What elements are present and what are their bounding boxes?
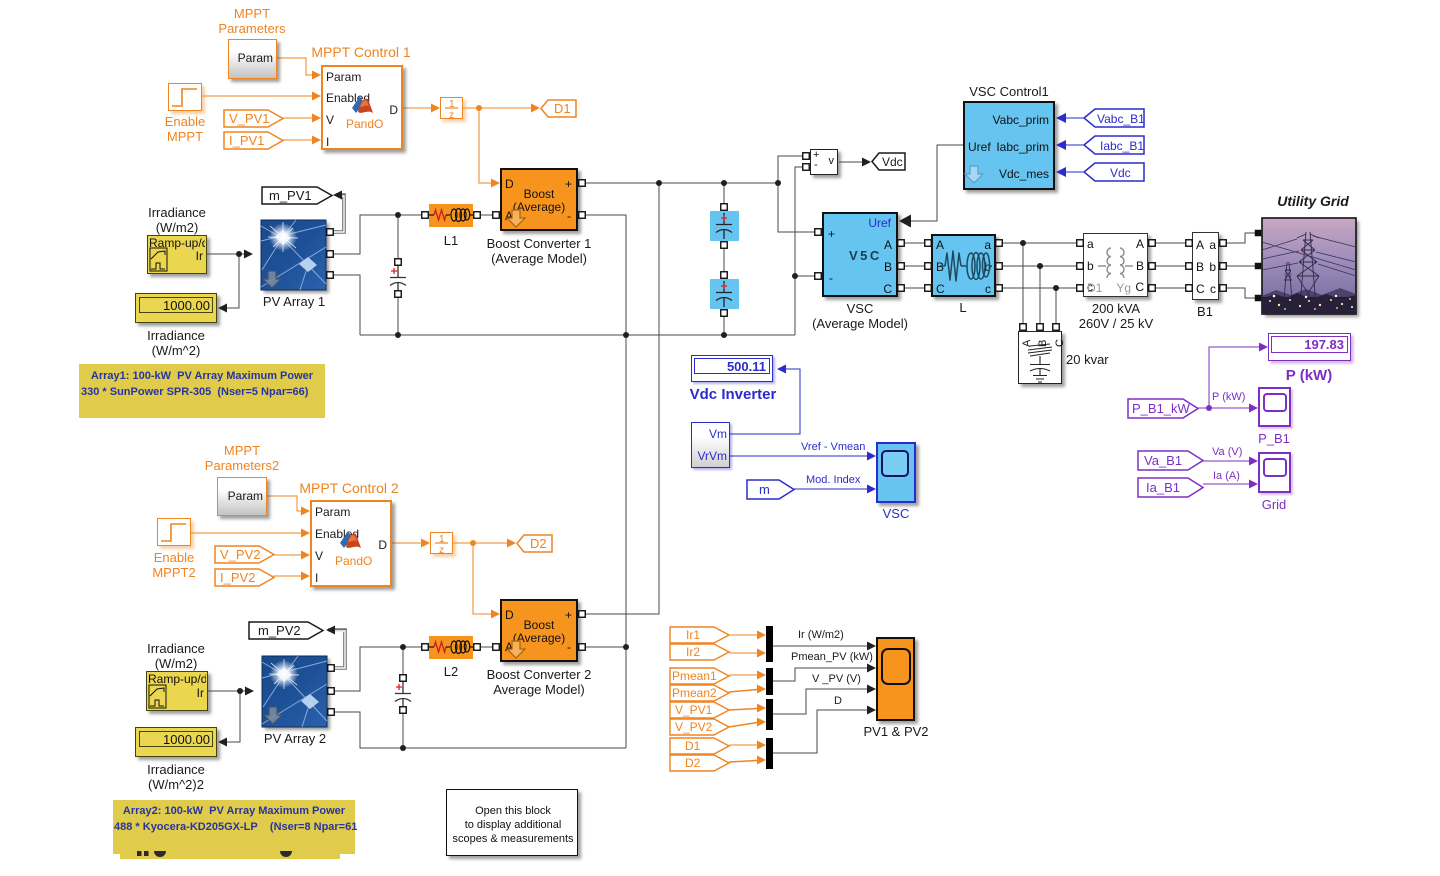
wire mux1 to scope: [773, 645, 870, 647]
icon step source 2: [161, 524, 186, 541]
icon transformer coils: [1098, 248, 1133, 278]
annotation VSC label: [812, 301, 908, 331]
wire Ia_B1 to Grid scope: [1203, 483, 1252, 485]
wire L a to transformer: [999, 242, 1080, 244]
block Param2: [217, 477, 267, 516]
annotation 20 kvar label: [1066, 352, 1109, 367]
wire V_PV1 to mux: [729, 709, 757, 711]
annotation clipped yellow strip: [120, 854, 340, 859]
wire PV1 plus to L1 rail: [330, 215, 493, 254]
wire D2 to mux: [729, 761, 757, 763]
block Boost Converter 1: [500, 168, 578, 231]
wire capacitor C2 branch: [402, 647, 404, 748]
icon down arrow Boost1: [507, 210, 525, 227]
block PV Array 2: [262, 656, 327, 727]
wire Ir2 to mux: [729, 652, 758, 654]
block MPPT Control 1: [321, 65, 403, 150]
icon ramp source 2: [149, 685, 166, 708]
wire Boost2 minus stub: [582, 646, 626, 648]
tag Va_B1 from: [1137, 450, 1203, 471]
block display 500.11: [691, 355, 773, 382]
wire D2 branch to Boost2 D: [473, 543, 492, 614]
wire Ramp1 to PV Array 1: [207, 253, 247, 255]
block MPPT Control 2: [310, 500, 392, 587]
svg-text:1: 1: [449, 99, 455, 110]
tag V_PV1 bottom from: [669, 701, 729, 719]
wire plus rail down to Boost2: [582, 183, 659, 614]
block L three-phase: [931, 234, 996, 297]
wire VSC A to L: [901, 242, 928, 244]
annotation Array1 yellow note: [79, 364, 325, 418]
annotation Utility Grid title: [1277, 194, 1349, 209]
wire mux2 to scope: [773, 668, 870, 681]
icon 20 kvar interior: [1021, 339, 1066, 382]
block Ramp-up/dc Ir source 1: [147, 235, 207, 274]
svg-text:z: z: [439, 545, 444, 556]
icon ramp source 1: [150, 248, 167, 271]
wire Ir1 to mux: [729, 634, 758, 636]
wire transformer A to B1: [1152, 242, 1189, 244]
block capacitor DC link upper: [710, 211, 739, 241]
wire Step2 to MPPT2: [191, 532, 302, 534]
block Display 1000.00 second: [135, 727, 217, 757]
tag P_B1_kW from: [1127, 398, 1198, 419]
wire branch to P display: [1209, 347, 1262, 408]
tag I_PV2 from: [214, 568, 274, 587]
tag V_PV2 from: [214, 545, 274, 564]
tag I_PV1 from: [223, 131, 283, 150]
wire I_PV1 to MPPT1: [283, 139, 313, 141]
wire Pmean2 to mux: [729, 690, 757, 693]
block transformer 200 kVA: [1083, 233, 1148, 297]
annotation Boost Converter 2 label: [487, 667, 592, 697]
block 20 kvar load: [1018, 331, 1062, 384]
wire Va_B1 to Grid scope: [1203, 460, 1252, 462]
wire Step1 to MPPT1: [202, 95, 313, 97]
block L1: [429, 204, 473, 227]
svg-text:C: C: [1054, 339, 1066, 347]
wire MPPT2 D to unit delay: [392, 542, 422, 544]
wire MPPT1 D to unit delay: [403, 107, 432, 109]
wire L b to transformer: [999, 265, 1080, 267]
wire Ramp2 to PV Array 2: [208, 690, 247, 692]
wire m_PV2 loop outer: [328, 630, 345, 668]
wire B1 c to grid image: [1223, 288, 1257, 298]
block capacitor DC link lower: [710, 279, 739, 309]
annotation P kW wire label: [1212, 391, 1245, 403]
wire rail to VSC plus: [778, 183, 817, 232]
annotation Array2 yellow note: [113, 800, 355, 854]
annotation Enable MPPT2: [152, 550, 195, 580]
icon L2 interior: [429, 641, 473, 654]
tag Vdc from: [1083, 162, 1144, 182]
annotation PV1 PV2 scope label: [863, 724, 928, 739]
tag V_PV2 bottom from: [669, 718, 729, 736]
capacitor DC link lower symbol: [716, 281, 732, 307]
tag Ir2 from: [669, 643, 729, 661]
icon unit delay 2: [435, 534, 448, 556]
tag m_PV2 goto: [248, 621, 323, 640]
annotation L2 label: [444, 664, 458, 679]
annotation MPPT Parameters2: [205, 443, 279, 473]
arrowheads black: [218, 158, 911, 747]
wire 20kvar drop A: [1022, 243, 1024, 324]
wire Boost1 plus rail: [582, 182, 778, 184]
annotation Ir wire label: [798, 629, 844, 641]
wire 20kvar drop C: [1055, 288, 1057, 324]
block voltage measurement v: [810, 149, 838, 175]
wire 20kvar drop B: [1039, 266, 1041, 324]
tag Ia_B1 from: [1137, 477, 1203, 498]
wire PV1 minus to negative bus: [330, 275, 360, 335]
capacitor C1 symbol: [390, 262, 406, 294]
tag D1 goto: [540, 99, 578, 118]
arrowheads blue: [777, 113, 1066, 494]
block VSC scope: [876, 442, 916, 503]
tag Iabc_B1 from: [1083, 135, 1144, 155]
icon unit delay 1: [445, 99, 458, 121]
wire branch to Display1: [226, 254, 239, 308]
wire D1 to mux: [729, 744, 758, 746]
icon L block interior: [940, 251, 992, 281]
tag V_PV1 from: [223, 109, 283, 128]
icon down arrow Boost2: [507, 641, 525, 658]
tag Pmean1 from: [669, 667, 729, 685]
block VSC Control1: [963, 101, 1055, 190]
icon PandO logo 2: [340, 531, 361, 548]
annotation MPPT Control 1 title: [311, 45, 410, 60]
block display 197.83: [1268, 333, 1351, 361]
junction dot purple: [1206, 405, 1212, 411]
wire V_PV2 to MPPT2: [273, 554, 302, 556]
block B1 measurement: [1192, 232, 1219, 300]
wire L c to transformer: [999, 287, 1080, 289]
icon down arrow PV1: [263, 271, 281, 288]
wire V_PV2 to mux: [729, 723, 757, 728]
wire bus2 bottom: [330, 712, 626, 748]
annotation V_PV wire label: [812, 673, 861, 685]
block Vm VrVm measurements: [691, 422, 730, 468]
annotation B1 label: [1197, 304, 1213, 319]
block Boost Converter 2: [500, 599, 578, 662]
wire VrVm to VSC scope: [730, 455, 870, 457]
annotation PV Array 2 label: [264, 731, 326, 746]
port squares: [327, 153, 1227, 716]
annotation D wire label: [834, 695, 842, 707]
junction dots black: [236, 180, 1059, 751]
wire Param2 to MPPT2: [267, 496, 302, 511]
wire B1 a to grid image: [1223, 233, 1257, 243]
mux bar 2: [766, 668, 773, 695]
wire unit delay 1 to D1 tag: [463, 107, 532, 109]
annotation Enable MPPT: [165, 114, 205, 144]
tag Vdc goto: [871, 152, 904, 171]
block utility grid image: [1262, 218, 1356, 314]
icon down arrow PV2: [264, 707, 282, 724]
wire Param1 to MPPT1: [277, 58, 313, 75]
port squares dark on image: [1255, 230, 1262, 302]
block unit delay 2 1/z: [430, 532, 453, 554]
block Display 1000.00 first: [135, 293, 217, 323]
block L2: [429, 636, 473, 659]
annotation Ia A wire label: [1213, 470, 1240, 482]
wire mux4 to scope: [773, 710, 870, 753]
annotation Irradiance W/m^2: [147, 328, 205, 358]
wire m_PV2 loop inner: [328, 631, 345, 668]
tag D1 bottom from: [669, 737, 729, 755]
wire negative bus riser to v-meas: [795, 167, 807, 335]
icon step source 1: [172, 89, 197, 106]
wire v-meas output to Vdc tag: [839, 161, 864, 163]
block unit delay 1/z: [440, 97, 463, 119]
wire branch to Display2: [226, 691, 240, 742]
wire capacitor C1 branch: [397, 215, 399, 335]
wire V_PV1 to MPPT1: [283, 117, 313, 119]
wire VSC B to L: [901, 265, 928, 267]
wire Pmean1 to mux: [729, 674, 758, 676]
annotation MPPT Control 2 title: [299, 481, 398, 496]
wire DC cap stack branch: [723, 183, 725, 335]
annotation Boost Converter 1 label: [487, 236, 592, 266]
annotation Vref - Vmean wire label: [801, 441, 865, 453]
annotation P_B1 label: [1258, 431, 1290, 446]
capacitor C2 symbol: [395, 678, 411, 710]
annotation L label: [959, 300, 966, 315]
svg-text:z: z: [449, 110, 454, 121]
icon down arrow VSC Control1: [965, 166, 983, 183]
wire Vdc to VSC Control1: [1060, 171, 1084, 173]
annotation Irradiance W/m^2 2: [147, 762, 205, 792]
wire negative bus 1: [360, 334, 795, 336]
block Param1: [228, 39, 277, 79]
wire I_PV2 to MPPT2: [273, 575, 302, 577]
icon PandO logo 1: [352, 96, 373, 113]
annotation MPPT Parameters: [218, 6, 285, 36]
annotation L1 label: [444, 233, 458, 248]
annotation Vdc Inverter label: [690, 387, 777, 402]
wire m tag to VSC scope: [794, 488, 870, 490]
mux bar 1: [766, 626, 773, 662]
annotation PV Array 1 label: [263, 294, 325, 309]
wire Boost1 minus down: [582, 215, 626, 748]
junction dots orange: [470, 105, 482, 546]
wire D1 branch to Boost1 D: [479, 108, 492, 183]
wire m_PV1 loop inner: [331, 196, 344, 232]
wire Uref from VSC Control1: [901, 145, 963, 221]
wire Vabc_B1 to VSC Control1: [1060, 117, 1084, 119]
mux bar 4: [766, 738, 773, 769]
annotation VSC Control1 title: [969, 84, 1048, 99]
annotation VSC scope label: [883, 506, 910, 521]
arrowheads orange: [301, 71, 766, 765]
block PV1 PV2 scope: [876, 637, 915, 721]
annotation Mod. Index wire label: [806, 474, 860, 486]
tag D2 bottom from: [669, 754, 729, 772]
annotation Va V wire label: [1212, 446, 1242, 458]
tag Ir1 from: [669, 626, 729, 644]
wire rail to voltage measure plus: [778, 156, 807, 183]
tag D2 goto: [516, 534, 554, 553]
block PV Array 1 image: [261, 220, 326, 290]
icon L1 interior: [429, 209, 473, 222]
capacitor DC link upper symbol: [716, 213, 732, 239]
wire transformer B to B1: [1152, 265, 1189, 267]
annotation Irradiance W/m2 bottom: [147, 641, 205, 671]
tag m from: [746, 479, 794, 500]
wire unit delay 2 to D2 tag: [452, 542, 508, 544]
wire VSC minus stub: [795, 275, 817, 277]
wire transformer C to B1: [1152, 287, 1189, 289]
block PV Array 2 image: [262, 656, 327, 727]
svg-text:1: 1: [439, 534, 445, 545]
tag m_PV1 goto: [261, 186, 332, 205]
block VSC average model: [822, 212, 898, 297]
annotation P kW label: [1286, 368, 1332, 383]
wire B1 b to grid image: [1223, 265, 1257, 267]
annotation transformer label: [1079, 301, 1153, 331]
annotation Pmean_PV wire label: [791, 651, 873, 663]
block Enable MPPT2 step source: [157, 518, 191, 546]
wire VSC C to L: [901, 287, 928, 289]
block utility grid image: [1262, 218, 1356, 314]
annotation Irradiance W/m2 top: [148, 205, 206, 235]
annotation open this block note: [446, 789, 578, 856]
block Enable MPPT step source: [168, 83, 202, 111]
wire Vm to Vdc Inverter display: [730, 369, 800, 434]
tag Vabc_B1 from: [1083, 108, 1144, 128]
tag Pmean2 from: [669, 684, 729, 702]
block PV Array 1: [261, 220, 326, 290]
arrowheads purple: [1249, 343, 1268, 489]
wire mux3 to scope: [773, 689, 870, 714]
wire Iabc_B1 to VSC Control1: [1060, 144, 1084, 146]
wire PV2 plus to L2 rail: [331, 647, 493, 691]
wire P_B1_kW to scope: [1198, 407, 1252, 409]
annotation clipped text remnants: [130, 848, 310, 858]
mux bar 3: [766, 699, 773, 730]
block P_B1 scope: [1258, 387, 1291, 427]
svg-text:B: B: [1037, 340, 1049, 347]
wire m_PV1 loop outer: [330, 195, 344, 232]
annotation Grid label: [1262, 497, 1287, 512]
block Ramp-up/dc Ir source 2: [146, 671, 208, 711]
block Grid scope: [1258, 452, 1291, 493]
